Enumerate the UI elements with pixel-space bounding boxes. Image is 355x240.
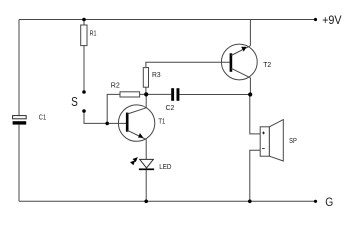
- svg-text:R1: R1: [90, 29, 97, 38]
- node B: C2/T2 collector/speaker junction: [248, 92, 252, 96]
- svg-text:R2: R2: [111, 80, 120, 89]
- svg-text:+9V: +9V: [322, 13, 342, 27]
- terminal G: [314, 197, 333, 209]
- wire T1 emitter vertical to LED: [145, 140, 147, 160]
- terminal +9V: [314, 13, 342, 27]
- node: speaker/ground junction: [248, 200, 252, 204]
- capacitor C1 (polarized): [13, 113, 47, 125]
- node: R2/R3/C2/T1 collector junction: [144, 92, 148, 96]
- wire bottom rail G: [19, 200, 316, 202]
- LED D1: [139, 159, 172, 171]
- wire R1 bottom lead to switch: [83, 46, 85, 92]
- svg-text:T2: T2: [263, 60, 271, 69]
- node: rail junction R1: [82, 18, 86, 22]
- wire R2 left lead: [107, 94, 120, 123]
- wire R1 top lead: [83, 20, 85, 26]
- wire LED cathode to ground rail: [145, 170, 147, 201]
- svg-text:G: G: [325, 197, 333, 209]
- wire left upper (rail to C1): [18, 20, 20, 116]
- capacitor C2: [166, 88, 180, 112]
- wire T1 collector vertical: [145, 94, 147, 107]
- wire R3 bottom lead: [145, 87, 147, 94]
- node A: R2/base junction: [105, 122, 109, 126]
- svg-text:C2: C2: [166, 103, 175, 112]
- wire speaker minus lead to ground: [250, 150, 260, 201]
- transistor T1: [118, 105, 165, 141]
- speaker SP: [260, 120, 297, 161]
- wire T2 collector vertical to node B: [249, 78, 251, 95]
- svg-text:T1: T1: [158, 116, 165, 125]
- wire C2 right to node B: [179, 94, 249, 96]
- switch S contacts: [71, 90, 86, 113]
- svg-text:LED: LED: [159, 162, 171, 171]
- svg-text:C1: C1: [39, 113, 46, 122]
- resistor R1: [81, 25, 97, 46]
- node: LED/ground junction: [144, 200, 148, 204]
- LED light arrows: [130, 157, 138, 165]
- wire T2 emitter vertical to +9V rail: [249, 20, 251, 46]
- wire R3 top lead and base wire to T2: [146, 62, 230, 67]
- transistor T2: [221, 44, 271, 80]
- resistor R3: [143, 68, 160, 88]
- wire top rail +9V: [19, 19, 316, 21]
- svg-text:SP: SP: [289, 136, 297, 145]
- wire R2 right to C2 left plate: [140, 93, 172, 95]
- svg-text:R3: R3: [152, 70, 161, 79]
- svg-text:S: S: [71, 94, 78, 109]
- wire left lower (C1 to ground rail): [18, 125, 20, 202]
- resistor R2: [111, 80, 140, 97]
- wire speaker plus lead: [250, 95, 260, 134]
- wire switch lower contact to T1 base: [84, 111, 126, 123]
